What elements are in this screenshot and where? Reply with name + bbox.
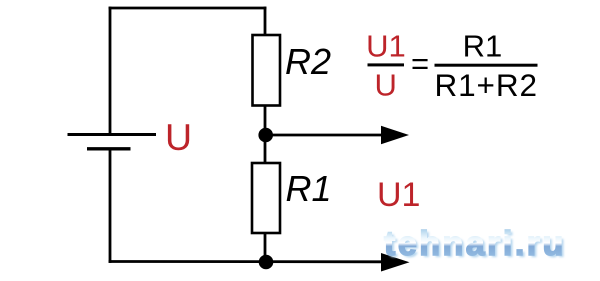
svg-text:U1: U1 <box>366 29 406 64</box>
svg-text:R1+R2: R1+R2 <box>434 67 537 103</box>
wire: output tap horizontal toward arrow <box>265 134 390 137</box>
wire: R2 bottom lead down to tap node <box>264 106 267 136</box>
resistor R2 body <box>253 35 281 106</box>
formula: fraction bar right <box>435 64 538 67</box>
battery U: long plate (+) <box>68 133 157 136</box>
svg-text:R1: R1 <box>463 29 503 64</box>
svg-text:=: = <box>411 46 429 81</box>
arrowhead: bottom rail output <box>381 253 410 272</box>
svg-text:tehnari.ru: tehnari.ru <box>384 225 566 263</box>
wire: left vertical from battery - terminal down to bottom rail <box>109 149 112 263</box>
formula: fraction bar left <box>368 63 405 66</box>
wire: top rail horizontal <box>109 7 267 10</box>
svg-text:R1: R1 <box>286 168 332 209</box>
svg-text:U: U <box>165 116 192 158</box>
wire: R2 top lead <box>264 7 267 37</box>
wire: tap node down to R1 top lead <box>264 135 267 164</box>
svg-text:R2: R2 <box>285 41 331 82</box>
resistor R1 body <box>252 163 280 233</box>
wire: left vertical from battery + terminal up to top rail <box>109 7 112 135</box>
battery U: short plate (-) <box>87 147 131 150</box>
svg-text:U: U <box>375 68 397 103</box>
junction node: bottom rail junction <box>259 255 274 270</box>
arrowhead: tap output (U1) <box>381 126 409 144</box>
wire: bottom rail horizontal toward arrow <box>109 260 390 263</box>
junction node: tap between R1 and R2 <box>258 128 273 143</box>
svg-text:U1: U1 <box>377 176 420 214</box>
wire: R1 bottom lead to bottom node <box>264 233 267 262</box>
